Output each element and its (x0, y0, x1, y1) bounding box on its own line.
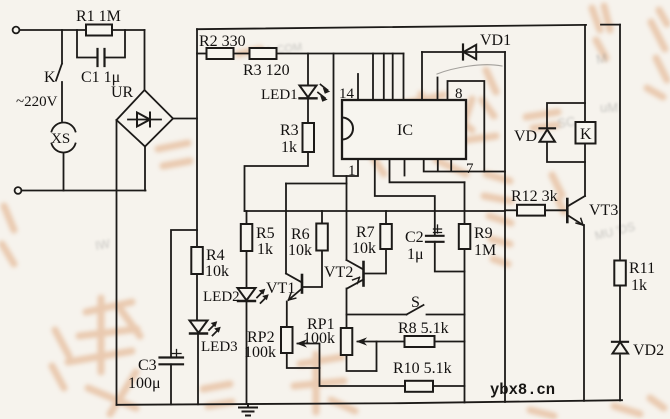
label R11 1k (629, 260, 655, 294)
svg-text:1k: 1k (257, 241, 273, 258)
wire VT2 collector (346, 176, 348, 260)
resistor R2 (207, 48, 234, 59)
wire relay top to rail (584, 25, 586, 103)
wire pin1 link (334, 54, 359, 177)
wire R2-R3 (234, 53, 250, 55)
potentiometer RP2 (281, 327, 293, 353)
label LED2 (203, 289, 240, 305)
svg-text:R3: R3 (280, 122, 299, 139)
svg-text:R5: R5 (256, 225, 275, 242)
wire bridge right to left rail (173, 118, 197, 120)
wire XS to bottom (63, 154, 65, 191)
wire top AC line (20, 29, 145, 31)
wire R7 top lead (385, 211, 387, 224)
label 7 (466, 161, 474, 177)
wire R9 rail down (464, 249, 466, 403)
label XS (51, 131, 70, 147)
wire relay loop (547, 103, 585, 162)
svg-text:IC: IC (397, 122, 413, 139)
label R3 120 (243, 62, 290, 79)
wire bridge bottom stem (144, 147, 146, 191)
svg-text:R8 5.1k: R8 5.1k (398, 320, 449, 337)
label ~220V (16, 94, 58, 110)
svg-text:ybx8.cn: ybx8.cn (490, 381, 555, 399)
svg-text:C3: C3 (138, 357, 157, 374)
relay coil K (576, 122, 596, 144)
wire VT2 base to R7 (364, 249, 387, 274)
svg-text:100k: 100k (303, 330, 335, 347)
wire R2 feed (197, 53, 207, 55)
wire VD1 anode pin (421, 52, 423, 100)
svg-text:UR: UR (111, 84, 134, 101)
label R1 1M (76, 8, 121, 25)
capacitor C1 (98, 49, 105, 66)
svg-text:~220V: ~220V (16, 94, 58, 110)
wire W2 collector bus (286, 183, 347, 185)
svg-text:VD1: VD1 (480, 32, 511, 49)
svg-text:LED3: LED3 (201, 339, 238, 355)
resistor R3 (1k) (303, 123, 315, 152)
label R2 330 (199, 33, 246, 50)
label VT2 (324, 264, 353, 281)
svg-text:uM: uM (600, 100, 618, 115)
label R6 10k (288, 226, 312, 259)
svg-text:100μ: 100μ (128, 375, 161, 392)
label R7 10k (352, 224, 376, 257)
wire R10 right lead (433, 385, 465, 387)
svg-text:1: 1 (348, 163, 356, 179)
svg-text:1M: 1M (474, 242, 496, 259)
wire R8 left lead (377, 341, 405, 343)
label R12 3k (511, 188, 558, 205)
wire LED3 to bottom rail (197, 334, 199, 404)
label RP2 100k (244, 329, 276, 361)
svg-text:K: K (44, 69, 56, 86)
svg-text:100k: 100k (244, 344, 276, 361)
wire bridge left to ground rail (116, 120, 118, 405)
switch K (56, 30, 62, 121)
wire LED2 to ground rail (246, 302, 248, 404)
svg-text:10k: 10k (288, 242, 312, 259)
label VD2 (633, 342, 664, 359)
svg-text:SC: SC (556, 114, 576, 131)
socket XS (52, 122, 76, 152)
wire bottom AC line (22, 190, 146, 192)
label C3 100u (128, 357, 161, 392)
svg-text:R7: R7 (356, 224, 375, 241)
svg-text:XS: XS (51, 131, 70, 147)
wire VD1 line (422, 51, 505, 53)
wire R9 top lead (464, 182, 466, 224)
bridge rectifier UR (117, 90, 174, 147)
label S (411, 294, 420, 311)
label R9 1M (474, 225, 496, 259)
label 14 (339, 86, 355, 102)
svg-text:14: 14 (339, 86, 355, 102)
label IC (397, 122, 413, 139)
resistor R11 (614, 261, 626, 286)
wire R3 to IC pins (277, 53, 404, 55)
wire LED1 to R3(1k) (307, 99, 309, 124)
svg-text:10k: 10k (205, 263, 229, 280)
resistor R3 (120) (250, 48, 277, 59)
wire VD1 vertical down (504, 52, 506, 402)
wire R12 feed (505, 209, 517, 211)
svg-text:8: 8 (455, 86, 463, 102)
resistor R6 (316, 224, 328, 251)
svg-text:R9: R9 (474, 225, 493, 242)
wire IC top pins to R3 wire (373, 54, 404, 101)
wire VT1 emitter to RP2 (286, 302, 288, 328)
switch S (407, 305, 465, 315)
wire pin4 stub (404, 159, 406, 176)
wire C2 bottom to R9 rail (435, 242, 465, 272)
IC U1 box (342, 100, 466, 159)
label UR (111, 84, 134, 101)
wire bus W1 (245, 210, 506, 212)
wire VD2 to bottom rail (619, 356, 621, 401)
wire RP2 bottom loop (287, 353, 320, 368)
wire right rail (619, 25, 621, 261)
svg-text:VT3: VT3 (589, 202, 618, 219)
svg-text:VT1: VT1 (266, 280, 295, 297)
diode VD1 (463, 45, 476, 60)
wire RP2 wiper (298, 341, 320, 369)
wire pins 5-7 bus B2 (424, 159, 505, 172)
transistor VT1 (286, 274, 302, 301)
resistor R10 (405, 381, 433, 392)
diode VD (540, 128, 556, 142)
svg-text:VD2: VD2 (633, 342, 664, 359)
resistor R5 (241, 224, 253, 251)
svg-text:10k: 10k (352, 240, 376, 257)
wire scribble (437, 65, 502, 74)
LED LED3 (190, 321, 221, 336)
wire VT1 collector (285, 184, 287, 274)
resistor R1 (86, 25, 112, 36)
label C2 1u (405, 229, 424, 263)
wire R5 to LED2 (246, 251, 248, 288)
potentiometer RP1 (341, 328, 353, 355)
svg-text:R10 5.1k: R10 5.1k (393, 360, 452, 377)
label RP1 100k (303, 316, 335, 347)
terminal top-left (13, 27, 20, 34)
wire emitter node to S and RP1 (347, 315, 407, 329)
resistor R7 (380, 224, 392, 249)
capacitor C1 branch wire (77, 30, 125, 58)
wire pin8 bracket (448, 81, 485, 172)
svg-text:K: K (580, 126, 592, 143)
wire bridge top stem (144, 30, 146, 90)
label R3 1k (280, 122, 299, 156)
resistor R4 (191, 247, 203, 274)
wire left rail (196, 29, 198, 247)
wire R5 top lead (246, 211, 248, 224)
ground (239, 404, 257, 416)
wire C3 branch (171, 230, 197, 357)
wire RP1 wiper (358, 339, 377, 372)
wire VT3 collector up (584, 162, 586, 196)
label K mains switch (44, 69, 56, 86)
capacitor C3 (160, 350, 184, 365)
svg-text:R3 120: R3 120 (243, 62, 290, 79)
label R8 5.1k (398, 320, 449, 337)
diode VD2 (612, 342, 628, 354)
svg-text:7: 7 (466, 161, 474, 177)
svg-text:R4: R4 (206, 247, 225, 264)
wire VT3 emitter down (583, 225, 585, 401)
wire RP1 bottom loop (347, 355, 377, 371)
label K relay (580, 126, 592, 143)
wire R8 right lead (435, 341, 465, 343)
wire pin2 to C2 (375, 159, 435, 236)
wire RP2 node to R10 (320, 368, 406, 386)
svg-text:1k: 1k (631, 277, 647, 294)
wire R11 to VD2 (619, 286, 621, 342)
svg-text:LED2: LED2 (203, 289, 240, 305)
label C1 1u (81, 69, 120, 86)
svg-text:C2: C2 (405, 229, 424, 246)
label LED3 (201, 339, 238, 355)
resistor R8 (405, 336, 435, 347)
svg-text:VT2: VT2 (324, 264, 353, 281)
transistor VT2 (347, 260, 364, 289)
svg-text:R11: R11 (629, 260, 655, 277)
label R4 10k (205, 247, 229, 280)
label 8 (455, 86, 463, 102)
wire pin3 bus B1 (390, 159, 465, 182)
wire pin14 stub (357, 74, 359, 100)
wire C3 to bottom rail (170, 364, 172, 404)
resistor R9 (459, 224, 471, 249)
label VT1 (266, 280, 295, 297)
wire R3(1k) to bus W1 (245, 152, 309, 211)
svg-text:R1 1M: R1 1M (76, 8, 121, 25)
svg-text:1μ: 1μ (407, 246, 424, 263)
svg-text:R2 330: R2 330 (199, 33, 246, 50)
label VD (514, 128, 537, 145)
svg-text:R12 3k: R12 3k (511, 188, 558, 205)
label VD1 (480, 32, 511, 49)
svg-text:VD: VD (514, 128, 537, 145)
label VT3 (589, 202, 618, 219)
wire VT2 emitter down (346, 289, 348, 315)
svg-text:1k: 1k (281, 139, 297, 156)
capacitor C2 (426, 225, 444, 242)
label ybx8.cn (490, 381, 555, 399)
wire top rail (197, 25, 620, 30)
svg-text:R6: R6 (291, 226, 310, 243)
transistor VT3 (567, 196, 585, 225)
label 1 (348, 163, 356, 179)
LED LED1 (300, 85, 330, 102)
wire R4 to LED3 (196, 274, 198, 321)
svg-text:S: S (411, 294, 420, 311)
svg-text:LED1: LED1 (261, 87, 298, 103)
wire LED1 drop (307, 54, 309, 86)
resistor R12 (517, 205, 545, 216)
wire R6 top lead (321, 211, 323, 224)
wire bottom rail (117, 400, 623, 405)
label LED1 (261, 87, 298, 103)
wire pin stub short (437, 78, 439, 101)
label R10 5.1k (393, 360, 452, 377)
LED LED2 (238, 288, 269, 303)
wire R6 to VT1 base (303, 251, 322, 288)
label R5 1k (256, 225, 275, 258)
terminal bottom-left (15, 187, 22, 194)
wire R12 to VT3 base (545, 209, 567, 211)
